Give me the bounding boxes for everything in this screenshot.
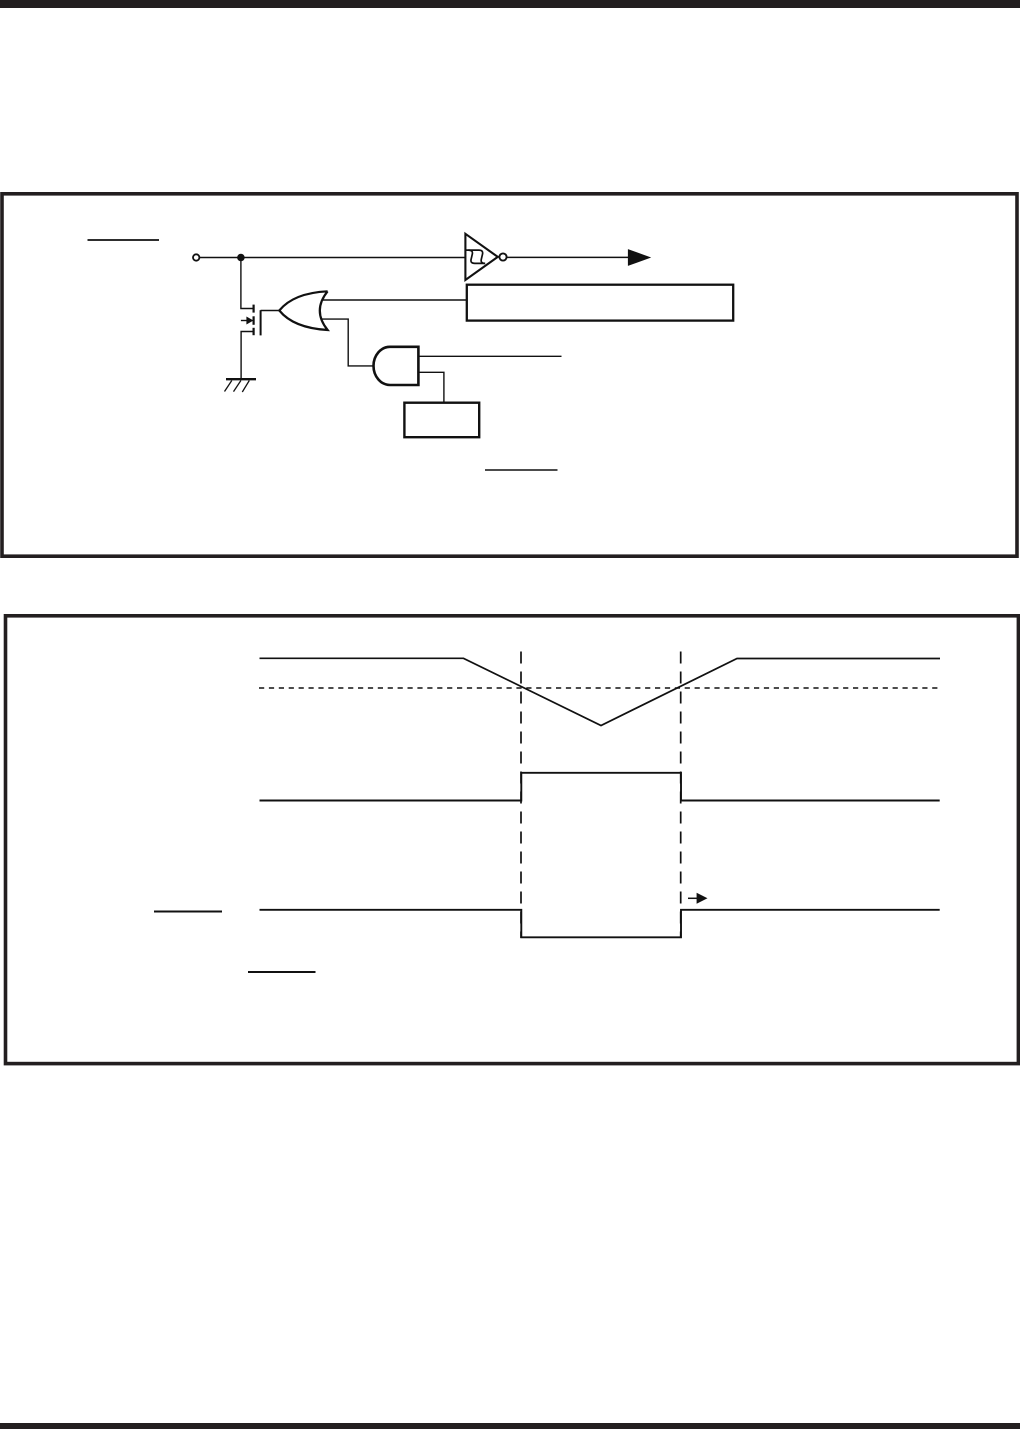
bottom footer bar bbox=[0, 1423, 1020, 1429]
node label overbar (input pin name) bbox=[88, 239, 160, 241]
wire: gate to OR gate output bbox=[261, 310, 280, 312]
schmitt trigger buffer U1 bbox=[465, 234, 497, 280]
waveform: active-low pulse bbox=[260, 910, 940, 938]
block: reset generator box bbox=[467, 285, 733, 321]
wire: junction down to transistor drain bbox=[241, 258, 253, 309]
wire: OR gate bottom input from AND gate output bbox=[320, 319, 375, 366]
figure 2 frame (timing diagram box) bbox=[6, 616, 1019, 1064]
wire: transistor source to ground bbox=[241, 332, 253, 379]
ground bbox=[225, 379, 257, 392]
block: timeout counter box bbox=[404, 403, 479, 438]
output arrowhead bbox=[628, 249, 651, 266]
schmitt hysteresis glyph bbox=[466, 250, 485, 263]
threshold dashed line bbox=[259, 687, 942, 689]
reset delay arrow bbox=[688, 893, 708, 904]
wire: input pin to schmitt buffer bbox=[200, 257, 466, 259]
inverter output bubble bbox=[499, 253, 506, 260]
wire: buffer output bbox=[507, 256, 629, 258]
signal label overbar (below AND output) bbox=[485, 469, 558, 471]
top header bar bbox=[0, 0, 1020, 8]
wire: OR gate top input from watchdog block bbox=[320, 299, 466, 301]
figure 1 frame (schematic box) bbox=[2, 194, 1017, 556]
timing parameter label overbar bbox=[248, 971, 316, 973]
and-gate U3 (points left) bbox=[374, 347, 419, 385]
junction dot bbox=[237, 254, 245, 262]
time marker dashed line t1 bbox=[520, 652, 522, 939]
transistor Q1 body arrow bbox=[241, 317, 254, 325]
input pin terminal circle bbox=[193, 254, 199, 260]
transistor Q1 gate bar bbox=[260, 310, 262, 335]
wire: AND gate input 2 from timeout block bbox=[418, 372, 444, 402]
time marker dashed line t2 bbox=[680, 652, 682, 939]
transistor Q1 channel segments bbox=[253, 305, 255, 336]
or-gate U2 (points left) bbox=[279, 291, 327, 330]
wire: AND gate input 1 bbox=[418, 355, 561, 357]
waveform: active-high pulse bbox=[260, 773, 940, 801]
waveform label overbar (row 3) bbox=[154, 911, 222, 913]
waveform: VCC with dip bbox=[260, 658, 941, 725]
